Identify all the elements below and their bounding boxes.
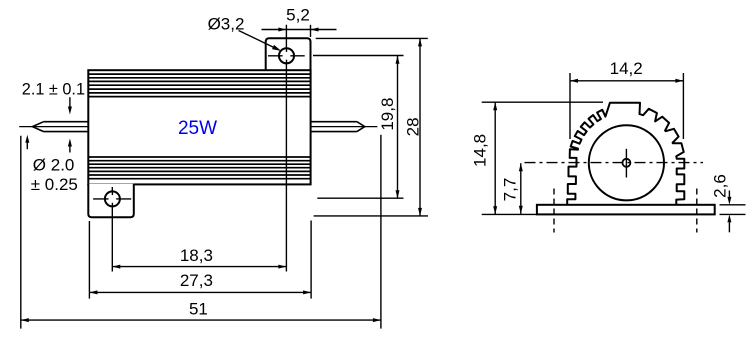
svg-text:18,3: 18,3 <box>180 246 213 265</box>
mounting hole top tab <box>279 48 294 63</box>
center lead hole <box>622 159 630 167</box>
finned housing cross-section (gear profile) <box>567 103 684 205</box>
svg-text:± 0.25: ± 0.25 <box>31 175 78 194</box>
mounting tab bottom-left <box>88 184 134 218</box>
hole crosshairs top tab <box>268 55 305 57</box>
center line horizontal (dash-dot) <box>525 162 704 164</box>
arrow down to lead top <box>69 97 71 108</box>
svg-text:5,2: 5,2 <box>286 5 310 24</box>
svg-text:19,8: 19,8 <box>378 98 397 131</box>
svg-text:7,7: 7,7 <box>501 178 520 202</box>
arrow up to lead bottom <box>69 145 71 153</box>
mounting hole bottom tab <box>105 191 120 206</box>
extension line through top hole center (vertical) <box>285 25 287 272</box>
arrow up at lead tip <box>26 141 28 149</box>
svg-text:2.1 ± 0.1: 2.1 ± 0.1 <box>22 81 85 99</box>
plate bottom extension to the left <box>482 213 537 215</box>
svg-text:14,8: 14,8 <box>470 134 489 167</box>
base plate <box>537 205 715 215</box>
mounting tab top-right <box>266 38 311 71</box>
svg-text:2,6: 2,6 <box>710 174 729 198</box>
resistor body <box>88 70 310 184</box>
hole crosshairs bottom tab <box>93 198 131 200</box>
svg-text:25W: 25W <box>178 118 217 139</box>
mounting hole center line left (dashed) <box>553 189 555 233</box>
left axial lead <box>19 122 88 132</box>
extension line through bottom hole (vertical) <box>111 187 113 272</box>
heatsink fins top <box>88 74 310 97</box>
svg-text:Ø 2.0: Ø 2.0 <box>33 155 75 174</box>
right axial lead <box>311 122 378 132</box>
resistor core circle <box>589 125 664 200</box>
svg-text:14,2: 14,2 <box>610 59 643 78</box>
mounting hole center line right (dashed) <box>696 189 698 233</box>
heatsink fins bottom <box>88 157 310 179</box>
svg-text:51: 51 <box>189 300 208 319</box>
svg-text:27,3: 27,3 <box>180 271 213 290</box>
